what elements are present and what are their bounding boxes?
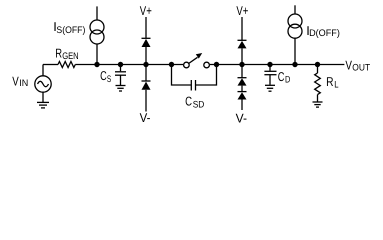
svg-text:S(OFF): S(OFF) (56, 25, 85, 36)
resistor RL (315, 65, 321, 102)
resistor RGEN (58, 62, 75, 68)
svg-text:R: R (55, 46, 62, 61)
svg-text:V+: V+ (236, 3, 248, 18)
label VOUT (345, 57, 370, 73)
ground CS (116, 86, 126, 92)
current source IS(OFF) (90, 6, 104, 64)
label VIN (12, 74, 28, 90)
node junction RL/rail (315, 62, 320, 67)
label CD (278, 69, 291, 85)
svg-text:C: C (185, 94, 192, 109)
capacitor CS (115, 65, 126, 86)
capacitor CSD (172, 65, 217, 91)
svg-text:V: V (12, 74, 19, 89)
label ID(OFF) (306, 23, 340, 39)
wire left clamp to V+ (145, 17, 147, 38)
svg-text:OUT: OUT (352, 63, 370, 74)
svg-text:R: R (326, 74, 333, 89)
diode D2 (left clamp to V-) (142, 65, 151, 112)
wire right clamp to V+ (241, 17, 243, 40)
node junction switch right / CSD right (214, 62, 219, 67)
svg-text:D: D (285, 74, 290, 85)
svg-text:V+: V+ (140, 3, 152, 18)
ground RL (313, 102, 323, 107)
ground CD (265, 85, 275, 91)
wire main rail middle segment (75, 64, 183, 66)
label RL (326, 74, 338, 91)
svg-text:V-: V- (236, 110, 247, 125)
label CSD (185, 94, 204, 111)
node junction right clamp/rail (239, 62, 244, 67)
svg-text:D(OFF): D(OFF) (309, 28, 340, 39)
label RGEN (55, 46, 79, 63)
svg-text:IN: IN (19, 78, 28, 89)
node junction left clamp/rail (143, 62, 148, 67)
node junction ID/rail (292, 62, 297, 67)
diode D4 (right clamp to V- upper) (238, 65, 247, 86)
wire main rail left segment (43, 64, 58, 66)
svg-text:SD: SD (193, 100, 205, 111)
svg-text:V: V (345, 57, 352, 72)
voltage source VIN (35, 65, 51, 103)
node junction IS/rail (94, 62, 99, 67)
label IS(OFF) (53, 19, 85, 36)
ground VIN (37, 102, 49, 108)
svg-text:V-: V- (140, 110, 151, 125)
svg-text:L: L (334, 80, 338, 91)
diode D1 (left clamp to V+) (142, 38, 151, 64)
label CS (100, 68, 111, 85)
diode D3 (right clamp to V+) (238, 40, 247, 64)
svg-text:S: S (107, 74, 111, 85)
node junction CS/rail (118, 62, 123, 67)
current source ID(OFF) (288, 5, 302, 64)
wire main rail right segment (210, 64, 344, 66)
node junction switch left / CSD left (169, 62, 174, 67)
diode D5 (right clamp to V- lower) (238, 86, 247, 110)
svg-text:GEN: GEN (62, 51, 79, 62)
capacitor CD (264, 65, 276, 85)
node junction CD/rail (267, 62, 272, 67)
switch S1 (184, 53, 210, 68)
svg-text:C: C (278, 69, 285, 84)
svg-text:C: C (100, 68, 107, 83)
